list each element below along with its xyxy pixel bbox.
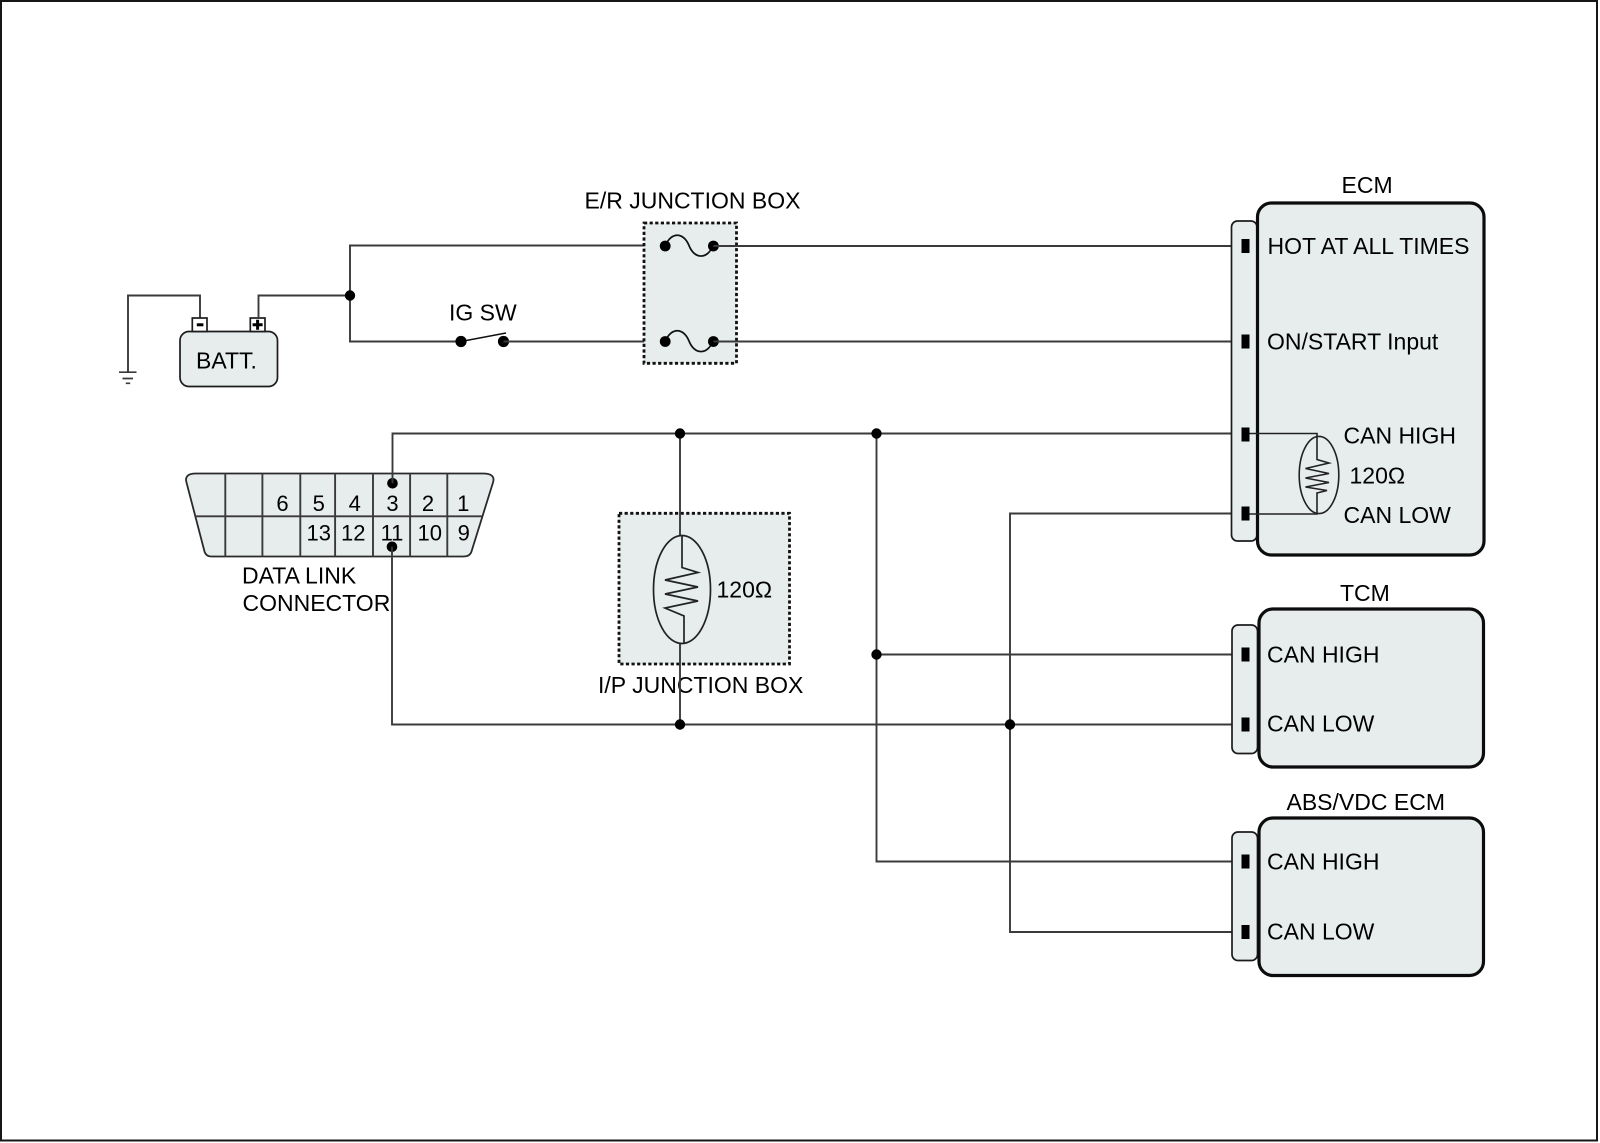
svg-text:HOT AT ALL TIMES: HOT AT ALL TIMES [1268, 233, 1470, 259]
svg-text:120Ω: 120Ω [1350, 463, 1406, 489]
ECM box [1258, 172, 1485, 555]
svg-text:DATA LINK: DATA LINK [242, 563, 357, 589]
svg-text:CAN LOW: CAN LOW [1344, 502, 1452, 528]
svg-text:6: 6 [276, 491, 288, 516]
svg-text:E/R JUNCTION BOX: E/R JUNCTION BOX [585, 188, 801, 214]
fuse: top (hot at all times) [660, 235, 719, 256]
svg-text:CAN HIGH: CAN HIGH [1267, 642, 1379, 668]
ground [119, 372, 137, 383]
pin: ECM CAN HIGH [1242, 428, 1250, 442]
resistor 120 ohm (I/P junction box) [654, 536, 773, 644]
wire: battery negative to ground [128, 296, 200, 373]
wire: CAN HIGH branch to TCM [877, 654, 1242, 656]
svg-text:3: 3 [386, 491, 398, 516]
pin: TCM CAN LOW [1242, 718, 1250, 732]
svg-text:BATT.: BATT. [196, 348, 257, 374]
svg-text:CAN LOW: CAN LOW [1267, 711, 1375, 737]
svg-text:5: 5 [313, 491, 325, 516]
svg-text:I/P JUNCTION BOX: I/P JUNCTION BOX [598, 672, 803, 698]
svg-text:13: 13 [306, 521, 330, 546]
node: CAN LOW trunk [1005, 719, 1015, 729]
fuse: bottom (ignition) [660, 331, 719, 352]
pin: ABS CAN HIGH [1242, 855, 1250, 869]
wire: terminating resistor drop (through I/P box) [679, 434, 681, 725]
wire: junction down to IG SW feed [350, 296, 461, 342]
node: DLC pin 3 [387, 478, 398, 489]
svg-text:2: 2 [422, 491, 434, 516]
node: CAN HIGH TCM branch [871, 649, 881, 659]
svg-text:1: 1 [457, 491, 469, 516]
svg-text:4: 4 [349, 491, 361, 516]
ABS/VDC ECM box [1259, 789, 1484, 976]
switch IG SW [449, 300, 517, 348]
node: CAN HIGH at resistor [675, 428, 685, 438]
TCM connector strip [1232, 625, 1258, 754]
wire: bottom fuse to ECM ON/START pin [713, 341, 1241, 343]
TCM box [1259, 580, 1484, 767]
data link connector [186, 474, 493, 617]
pin: TCM CAN HIGH [1242, 648, 1250, 662]
svg-text:12: 12 [341, 521, 365, 546]
svg-text:ECM: ECM [1342, 172, 1393, 198]
wire: IG SW to E/R junction box [504, 341, 666, 343]
wire: battery positive to junction [259, 296, 351, 319]
svg-text:10: 10 [417, 521, 441, 546]
ECM connector strip [1232, 221, 1258, 541]
node: CAN HIGH trunk top [871, 428, 881, 438]
svg-text:ON/START Input: ON/START Input [1267, 329, 1439, 355]
wire: CAN HIGH from DLC pin 3 to ECM [393, 434, 1242, 484]
svg-text:CAN HIGH: CAN HIGH [1267, 849, 1379, 875]
node: CAN LOW at resistor [675, 719, 685, 729]
svg-text:9: 9 [458, 521, 470, 546]
svg-text:120Ω: 120Ω [717, 577, 773, 603]
node: battery junction [345, 290, 355, 300]
pin: ABS CAN LOW [1242, 925, 1250, 939]
pin: ECM HOT AT ALL TIMES [1242, 239, 1250, 253]
E/R junction box [585, 188, 801, 364]
svg-text:CONNECTOR: CONNECTOR [243, 590, 391, 616]
resistor 120 ohm (ECM) [1250, 434, 1339, 515]
svg-text:TCM: TCM [1340, 580, 1390, 606]
wire: top fuse to ECM HOT pin [713, 245, 1241, 247]
wire: junction up to hot feed [350, 246, 665, 296]
svg-text:CAN LOW: CAN LOW [1267, 919, 1375, 945]
svg-text:IG SW: IG SW [449, 300, 517, 326]
ABS/VDC ECM connector strip [1232, 832, 1258, 961]
battery BATT. [180, 318, 278, 387]
pin: ECM CAN LOW [1242, 507, 1250, 521]
wire: CAN HIGH trunk down to ABS [877, 434, 1242, 862]
svg-text:CAN HIGH: CAN HIGH [1344, 423, 1456, 449]
pin: ECM ON/START [1242, 335, 1250, 349]
svg-text:ABS/VDC ECM: ABS/VDC ECM [1287, 789, 1445, 815]
I/P junction box [598, 513, 803, 698]
wire: CAN LOW from ECM down to ABS [1010, 514, 1242, 933]
wire: CAN LOW from DLC pin 11 to TCM [392, 547, 1242, 725]
node: DLC pin 11 [387, 542, 398, 553]
